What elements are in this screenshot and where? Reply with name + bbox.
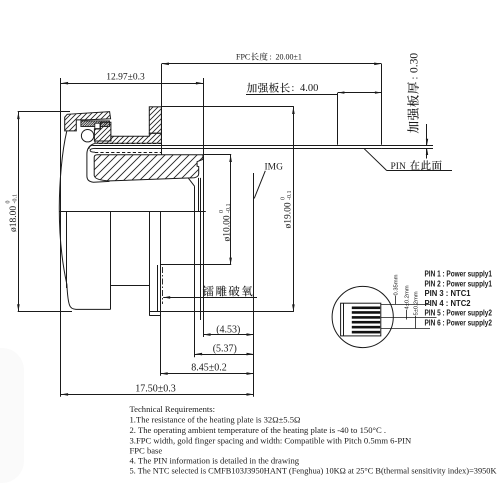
recess step [110, 285, 149, 287]
svg-text:-0.1: -0.1 [287, 191, 293, 201]
svg-text:20.00±1: 20.00±1 [276, 53, 302, 62]
gold finger pins [352, 307, 380, 310]
faint scan blob bottom-left [0, 348, 24, 483]
hidden edge dashed above FPC [99, 143, 162, 145]
svg-text:ø18.00: ø18.00 [9, 206, 19, 232]
finger dim 4-0.2mm [404, 285, 410, 319]
label PIN side (PIN在此面) [364, 149, 452, 172]
pin leader lines [381, 304, 430, 306]
svg-text:(4.53): (4.53) [216, 324, 240, 335]
barrel step edges right [198, 178, 200, 211]
dimension stiffener thickness 0.30 [381, 53, 433, 159]
PIN assignment list [425, 269, 493, 328]
barrel right edge [194, 186, 196, 357]
barrel lip (hatched) [94, 122, 111, 141]
label IMG with leader [254, 162, 283, 198]
finger width dim 0.35mm [393, 274, 399, 304]
svg-text:4. The PIN information is deta: 4. The PIN information is detailed in th… [130, 455, 300, 465]
cap top (hatched section) [65, 112, 111, 131]
holder band (hatched) [95, 133, 161, 143]
svg-text:PIN: PIN [391, 162, 406, 172]
svg-text::: : [409, 77, 420, 80]
svg-text:0: 0 [6, 201, 12, 204]
main holder block (hatched) [94, 155, 203, 181]
detail view circle [332, 286, 393, 347]
centerline dash-dot laser mark [162, 267, 164, 304]
svg-text:5±0.2mm: 5±0.2mm [414, 291, 420, 315]
svg-text:-0.1: -0.1 [12, 194, 18, 204]
svg-text:FPC: FPC [236, 53, 250, 62]
bore wall 2 [149, 211, 151, 315]
image plane line [253, 173, 255, 397]
svg-text:17.50±0.3: 17.50±0.3 [135, 383, 176, 394]
bore wall 3 / 8.45 extension [160, 211, 162, 376]
label laser engraving (镭雕破氧) [163, 286, 257, 299]
svg-text:PIN 4 : NTC2: PIN 4 : NTC2 [425, 298, 471, 308]
shoulder line [59, 211, 206, 213]
connector body [341, 303, 381, 336]
svg-text:PIN 2 : Power supply1: PIN 2 : Power supply1 [425, 278, 493, 288]
FPC flex cable [89, 145, 382, 152]
cylinder wall left [66, 211, 68, 288]
extension line right of 12.97 / (4.53) [203, 78, 205, 337]
svg-text:ø10.00: ø10.00 [222, 215, 232, 241]
bore wall 1 [110, 211, 112, 309]
svg-text:8.45±0.2: 8.45±0.2 [191, 363, 227, 374]
svg-text:PIN 6 : Power supply2: PIN 6 : Power supply2 [425, 318, 493, 328]
svg-text:12.97±0.3: 12.97±0.3 [106, 72, 145, 82]
svg-text:PIN 5 : Power supply2: PIN 5 : Power supply2 [425, 308, 493, 318]
svg-text:4.00: 4.00 [300, 83, 318, 94]
svg-text:IMG: IMG [265, 162, 284, 172]
hidden edge dashed below FPC [95, 152, 161, 154]
dimension (4.53) [203, 324, 253, 336]
bell inner skirt line [87, 144, 110, 183]
dimension diameter 19.00 [149, 107, 294, 312]
svg-text:PIN 1 : Power supply1: PIN 1 : Power supply1 [425, 269, 493, 279]
housing vertical bar (hatched) [149, 107, 161, 133]
dimension 17.50 [61, 383, 254, 395]
extension line left (12.97 / 17.50) [60, 78, 62, 397]
svg-text:0.35mm: 0.35mm [393, 274, 399, 295]
flange bottom [149, 315, 160, 317]
svg-text:-0.1: -0.1 [226, 204, 232, 214]
svg-text:PIN 3 : NTC1: PIN 3 : NTC1 [425, 288, 471, 298]
svg-text:1.The resistance of the heatin: 1.The resistance of the heating plate is… [130, 414, 301, 424]
dimension diameter 18.00 [6, 112, 72, 312]
dimension (5.37) [195, 344, 254, 356]
dimension FPC length 20.00 [162, 52, 382, 154]
dimension 12.97 [61, 72, 203, 84]
svg-text:0: 0 [280, 197, 286, 200]
glass element (dense hatch) [81, 121, 110, 127]
inner edge short [157, 265, 159, 312]
svg-text::: : [270, 53, 272, 62]
technical requirements text [130, 404, 498, 476]
chamfer right below block [188, 178, 194, 186]
svg-text:FPC base: FPC base [130, 445, 163, 455]
dimension stiffener length 4.00 [246, 83, 381, 145]
svg-text:3.FPC width, gold finger spaci: 3.FPC width, gold finger spacing and wid… [130, 435, 412, 445]
svg-text:5. The NTC selected is CMFB103: 5. The NTC selected is CMFB103J3950HANT … [130, 465, 498, 475]
finger dim 5-0.2mm [414, 291, 420, 328]
svg-text:0: 0 [219, 210, 225, 213]
svg-text:(5.37): (5.37) [213, 344, 237, 355]
bell outer profile curve [59, 131, 110, 309]
svg-text:ø19.00: ø19.00 [284, 202, 294, 228]
dimension diameter 10.00 [161, 155, 233, 265]
svg-text:4±0.2mm: 4±0.2mm [404, 285, 410, 309]
svg-text:Technical Requirements:: Technical Requirements: [130, 404, 216, 414]
dimension 8.45 [161, 363, 254, 375]
svg-text::: : [292, 83, 295, 94]
svg-text:2. The operating ambient tempe: 2. The operating ambient temperature of … [130, 425, 386, 435]
svg-text:0.30: 0.30 [408, 53, 420, 73]
o-ring seal [81, 130, 93, 142]
